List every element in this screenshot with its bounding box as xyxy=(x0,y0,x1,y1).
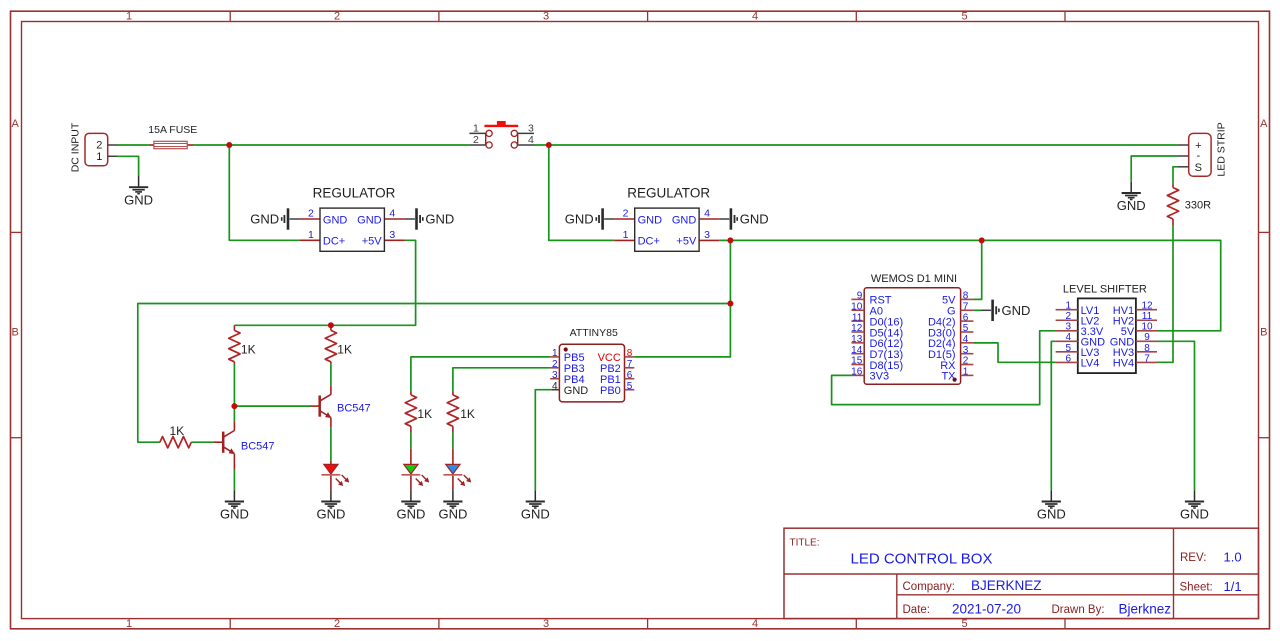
svg-text:2021-07-20: 2021-07-20 xyxy=(952,601,1021,616)
wire DC input pin1 to ground xyxy=(117,156,139,176)
svg-text:TX: TX xyxy=(941,371,956,383)
svg-text:1: 1 xyxy=(963,367,969,378)
svg-text:1K: 1K xyxy=(417,407,432,421)
resistor R2 leads xyxy=(330,325,332,364)
junction node D xyxy=(979,237,985,243)
svg-text:1: 1 xyxy=(126,618,132,630)
svg-text:Date:: Date: xyxy=(903,604,931,616)
transistor Q2 BC547 xyxy=(311,394,371,418)
svg-text:GND: GND xyxy=(1002,303,1031,318)
resistor R4 1K xyxy=(405,395,432,426)
svg-text:8: 8 xyxy=(963,291,969,302)
wire ATTINY85 PB3 to blue LED resistor xyxy=(453,368,550,392)
svg-text:2: 2 xyxy=(963,356,969,367)
svg-text:14: 14 xyxy=(851,345,863,356)
svg-text:A: A xyxy=(12,118,20,130)
svg-text:4: 4 xyxy=(552,381,558,392)
connector P2 LED STRIP xyxy=(1178,122,1228,176)
svg-text:GND: GND xyxy=(124,192,153,207)
svg-text:11: 11 xyxy=(1142,311,1153,322)
wire R2 bottom to Q2 collector xyxy=(330,364,332,386)
svg-text:LV4: LV4 xyxy=(1081,358,1100,370)
svg-text:3: 3 xyxy=(543,11,549,23)
wire level shifter GND pin4 to ground xyxy=(1051,341,1055,490)
svg-text:5: 5 xyxy=(627,381,633,392)
svg-text:7: 7 xyxy=(627,359,633,370)
svg-text:1: 1 xyxy=(96,151,102,163)
resistor R6 330R xyxy=(1167,188,1211,219)
svg-text:DC INPUT: DC INPUT xyxy=(69,122,81,172)
svg-text:8: 8 xyxy=(1144,343,1150,354)
svg-text:Drawn By:: Drawn By: xyxy=(1052,604,1105,616)
svg-text:13: 13 xyxy=(851,334,863,345)
svg-text:15: 15 xyxy=(851,356,863,367)
svg-text:2: 2 xyxy=(308,208,314,220)
svg-text:LEVEL SHIFTER: LEVEL SHIFTER xyxy=(1063,283,1147,295)
svg-text:BC547: BC547 xyxy=(241,440,275,452)
ground symbol below LED D3 xyxy=(438,490,467,521)
wire LED strip - to ground xyxy=(1131,156,1178,182)
svg-text:REV:: REV: xyxy=(1180,552,1206,564)
svg-text:4: 4 xyxy=(528,134,534,146)
IC U3 ATTINY85 (pin4 stub) xyxy=(551,389,559,391)
junction node C xyxy=(727,237,733,243)
svg-text:4: 4 xyxy=(389,208,395,220)
svg-text:GND: GND xyxy=(323,214,348,226)
transistor Q1 collector/emitter leads xyxy=(233,422,235,470)
svg-text:7: 7 xyxy=(1144,353,1150,364)
svg-text:GND: GND xyxy=(1037,507,1066,522)
svg-text:3: 3 xyxy=(704,229,710,241)
svg-text:GND: GND xyxy=(220,507,249,522)
svg-text:3: 3 xyxy=(1066,322,1072,333)
svg-text:1: 1 xyxy=(126,11,132,23)
svg-text:4: 4 xyxy=(752,618,758,630)
svg-text:GND: GND xyxy=(396,507,425,522)
svg-text:PB0: PB0 xyxy=(600,385,621,397)
svg-text:4: 4 xyxy=(752,11,758,23)
svg-text:WEMOS D1 MINI: WEMOS D1 MINI xyxy=(871,273,957,285)
svg-text:12: 12 xyxy=(851,323,863,334)
svg-text:HV4: HV4 xyxy=(1113,358,1134,370)
svg-text:5: 5 xyxy=(961,618,967,630)
svg-text:3: 3 xyxy=(389,229,395,241)
ground bar symbol at WEMOS G pin xyxy=(981,300,1030,321)
svg-text:LED CONTROL BOX: LED CONTROL BOX xyxy=(851,550,993,567)
svg-text:15A FUSE: 15A FUSE xyxy=(148,124,197,136)
svg-text:5: 5 xyxy=(961,11,967,23)
svg-text:B: B xyxy=(1260,326,1267,338)
svg-text:A: A xyxy=(1260,118,1268,130)
svg-text:REGULATOR: REGULATOR xyxy=(313,185,396,200)
LED D1 leads xyxy=(330,461,332,491)
resistor R5 leads xyxy=(452,391,454,432)
svg-text:Bjerknez: Bjerknez xyxy=(1119,601,1172,616)
ground bar symbol at U2 pin2 xyxy=(565,208,614,229)
svg-text:10: 10 xyxy=(851,301,863,312)
svg-text:9: 9 xyxy=(857,291,863,302)
svg-text:2: 2 xyxy=(623,208,629,220)
svg-text:Sheet:: Sheet: xyxy=(1180,582,1213,594)
LED D3 blue xyxy=(443,464,471,486)
resistor R4 leads xyxy=(410,391,412,432)
svg-text:4: 4 xyxy=(963,334,969,345)
transistor Q2 collector/emitter leads xyxy=(330,386,332,428)
ground bar symbol at U2 pin4 xyxy=(719,208,768,229)
wire level shifter GND pin9 to ground xyxy=(1157,341,1195,490)
svg-text:Company:: Company: xyxy=(903,581,955,593)
wire node to regulator1 DC+ xyxy=(229,145,299,240)
svg-text:DC+: DC+ xyxy=(323,236,345,248)
resistor R6 330R leads xyxy=(1172,183,1174,225)
svg-text:4: 4 xyxy=(1066,332,1072,343)
svg-text:1: 1 xyxy=(308,229,314,241)
LED D3 leads xyxy=(452,449,454,491)
svg-text:3: 3 xyxy=(543,618,549,630)
svg-text:1K: 1K xyxy=(241,343,256,357)
svg-text:GND: GND xyxy=(357,214,382,226)
svg-text:6: 6 xyxy=(1066,353,1072,364)
wire green LED resistor to LED xyxy=(410,432,412,448)
svg-text:GND: GND xyxy=(250,212,279,227)
svg-text:1: 1 xyxy=(552,348,558,359)
ground symbol below level shifter pin9 xyxy=(1180,490,1209,521)
svg-text:3V3: 3V3 xyxy=(870,371,890,383)
svg-text:+5V: +5V xyxy=(676,236,697,248)
svg-text:1.0: 1.0 xyxy=(1224,549,1242,564)
wire blue LED resistor to LED xyxy=(452,432,454,448)
fuse F1 right lead xyxy=(187,144,193,146)
ground symbol below LED D1 xyxy=(316,490,345,521)
svg-text:6: 6 xyxy=(627,370,633,381)
wire R1 bottom to Q1 collector xyxy=(233,364,235,422)
wire Q1 collector node to Q2 base xyxy=(234,405,311,407)
svg-text:3: 3 xyxy=(552,370,558,381)
ground symbol below level shifter pin4 xyxy=(1037,490,1066,521)
svg-text:B: B xyxy=(12,326,19,338)
wire switch pin4 to LED strip + xyxy=(534,144,1178,146)
svg-text:+5V: +5V xyxy=(362,236,383,248)
ground symbol below ATTINY85 GND xyxy=(521,490,550,521)
svg-text:8: 8 xyxy=(627,348,633,359)
svg-text:1K: 1K xyxy=(337,343,352,357)
svg-text:1: 1 xyxy=(623,229,629,241)
wire LED strip S to 330R xyxy=(1173,167,1178,183)
svg-text:BJERKNEZ: BJERKNEZ xyxy=(971,578,1042,593)
resistor R1 1K xyxy=(229,330,256,361)
svg-text:TITLE:: TITLE: xyxy=(790,538,820,549)
svg-text:GND: GND xyxy=(638,214,663,226)
svg-text:3: 3 xyxy=(963,345,969,356)
svg-text:2: 2 xyxy=(1066,311,1072,322)
IC U3 ATTINY85 xyxy=(550,327,634,402)
svg-text:BC547: BC547 xyxy=(337,403,371,415)
svg-text:GND: GND xyxy=(438,507,467,522)
transistor Q1 BC547 xyxy=(214,431,275,455)
wire regulator1 +5V to 1K resistors xyxy=(234,240,415,325)
wire +5V long branch to Q1 base resistor xyxy=(138,304,731,443)
junction node A xyxy=(226,142,232,148)
svg-text:1K: 1K xyxy=(170,424,185,438)
svg-text:S: S xyxy=(1195,162,1202,174)
svg-text:3: 3 xyxy=(528,123,534,135)
regulator U2 xyxy=(623,185,711,251)
svg-text:DC+: DC+ xyxy=(638,236,660,248)
wire WEMOS G to ground symbol xyxy=(973,309,981,311)
wire +5V down to ATTINY85 VCC xyxy=(634,240,730,357)
svg-text:7: 7 xyxy=(963,301,969,312)
wire ATTINY85 PB5 to green LED resistor xyxy=(411,357,550,392)
svg-text:4: 4 xyxy=(704,208,710,220)
svg-text:ATTINY85: ATTINY85 xyxy=(570,327,618,339)
svg-text:6: 6 xyxy=(963,312,969,323)
ground bar symbol at U1 pin4 xyxy=(405,208,454,229)
svg-text:GND: GND xyxy=(672,214,697,226)
svg-text:11: 11 xyxy=(852,312,863,323)
svg-text:5: 5 xyxy=(1066,343,1072,354)
junction node E xyxy=(727,301,733,307)
wire DC+ to fuse xyxy=(117,144,149,146)
wire regulator2 +5V rail to level shifter 5V xyxy=(719,240,1220,330)
resistor R3 1K xyxy=(160,424,191,448)
wire R3 to Q1 base xyxy=(191,441,214,443)
LED D2 green xyxy=(401,464,429,486)
svg-text:GND: GND xyxy=(425,212,454,227)
svg-text:1K: 1K xyxy=(460,407,475,421)
svg-text:2: 2 xyxy=(96,140,102,152)
ground symbol below DC input xyxy=(124,176,153,207)
title block xyxy=(784,528,1259,618)
LED D2 leads xyxy=(410,449,412,491)
pushbutton switch SW1 xyxy=(469,121,534,148)
svg-text:LED STRIP: LED STRIP xyxy=(1216,122,1228,176)
wire WEMOS 3V3 to level shifter 3.3V xyxy=(832,331,1056,405)
wire WEMOS D2(4) to level shifter LV4 xyxy=(973,343,1055,362)
svg-text:2: 2 xyxy=(334,618,340,630)
IC U4 WEMOS D1 MINI xyxy=(851,273,973,384)
svg-text:GND: GND xyxy=(1180,507,1209,522)
svg-text:16: 16 xyxy=(851,367,863,378)
ground bar symbol at U1 pin2 xyxy=(250,208,299,229)
svg-text:2: 2 xyxy=(473,134,479,146)
resistor R5 1K xyxy=(447,395,475,426)
regulator U1 xyxy=(308,185,396,251)
fuse F1 15A FUSE xyxy=(148,124,197,149)
ground symbol below LED D2 xyxy=(396,490,425,521)
svg-text:1: 1 xyxy=(1066,301,1072,312)
resistor R2 1K xyxy=(325,330,352,361)
LED D1 red xyxy=(321,464,349,486)
svg-text:GND: GND xyxy=(1117,198,1146,213)
junction node G xyxy=(231,403,237,409)
svg-text:REGULATOR: REGULATOR xyxy=(627,185,710,200)
junction node B xyxy=(546,142,552,148)
junction node F xyxy=(328,322,334,328)
svg-text:9: 9 xyxy=(1144,332,1150,343)
svg-text:330R: 330R xyxy=(1185,199,1211,211)
svg-text:GND: GND xyxy=(564,385,589,397)
svg-text:2: 2 xyxy=(334,11,340,23)
wire ATTINY85 GND pin to ground xyxy=(535,390,551,491)
svg-text:GND: GND xyxy=(740,212,769,227)
svg-text:-: - xyxy=(1196,150,1200,162)
connector P1 DC INPUT xyxy=(69,122,117,172)
wire Q1 emitter to ground xyxy=(233,470,235,491)
ground symbol below LED strip - xyxy=(1117,182,1146,213)
svg-text:5: 5 xyxy=(963,323,969,334)
fuse F1 left lead xyxy=(149,144,154,146)
svg-text:GND: GND xyxy=(316,507,345,522)
wire Q2 emitter to red LED xyxy=(330,427,332,461)
regulator U1 pin stubs xyxy=(300,219,405,240)
ground symbol below Q1 xyxy=(220,490,249,521)
svg-text:10: 10 xyxy=(1141,322,1153,333)
wire level shifter HV4 to 330R xyxy=(1157,225,1173,362)
regulator U2 pin stubs xyxy=(614,219,719,240)
svg-text:GND: GND xyxy=(521,507,550,522)
svg-text:1/1: 1/1 xyxy=(1224,579,1242,594)
IC U5 LEVEL SHIFTER xyxy=(1056,283,1157,373)
wire node to regulator2 DC+ xyxy=(549,145,614,240)
wire fuse to switch pin2 xyxy=(193,144,469,146)
svg-text:1: 1 xyxy=(473,123,479,135)
svg-text:12: 12 xyxy=(1141,301,1153,312)
wire WEMOS 5V to +5V rail xyxy=(973,240,981,299)
resistor R1 leads xyxy=(233,325,235,364)
svg-text:2: 2 xyxy=(552,359,558,370)
svg-text:GND: GND xyxy=(565,212,594,227)
